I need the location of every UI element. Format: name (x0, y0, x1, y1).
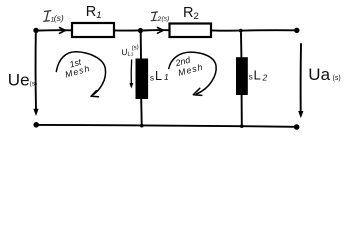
voltage arrow Ua (300, 44, 302, 112)
svg-text:2: 2 (262, 72, 268, 82)
mesh 1 arc (56, 52, 105, 96)
label 1st Mesh (64, 57, 92, 80)
label I2(s) (151, 12, 169, 23)
junction dot sL2 bottom (240, 124, 244, 128)
wire sL1 top stub (140, 33, 142, 59)
arrowhead current I1 (60, 28, 66, 34)
wire node to R1 (39, 29, 71, 31)
wire R1 to node A (114, 29, 138, 31)
svg-text:L: L (155, 69, 162, 83)
svg-text:(s): (s) (131, 45, 139, 52)
node B junction sL2 top (239, 29, 243, 33)
svg-text:(s): (s) (161, 16, 169, 23)
node bottom-left (33, 122, 39, 128)
wire sL1 bottom stub (140, 99, 143, 125)
label UL1(s) handwritten (120, 44, 140, 58)
arrowhead current I2 (158, 28, 164, 34)
inductor sL1 (136, 59, 149, 100)
resistor R2 (170, 24, 212, 38)
node A junction sL1 top (138, 28, 143, 33)
node top-right (294, 28, 299, 33)
wire sL2 top stub (240, 33, 242, 57)
svg-text:(s): (s) (54, 13, 64, 23)
voltage arrow UL1 (130, 60, 132, 84)
label 2nd Mesh (173, 54, 204, 78)
label I1(s) (44, 11, 64, 24)
svg-text:1: 1 (164, 72, 169, 82)
node top-left (33, 28, 38, 33)
svg-text:s: s (150, 73, 154, 82)
mesh 2 arrowhead (193, 88, 202, 95)
junction dot sL1 bottom (140, 124, 144, 128)
wire node A to R2 (143, 29, 169, 31)
mesh 2 arc (169, 52, 216, 94)
node bottom-right (294, 124, 300, 130)
wire R2 to node B (211, 29, 239, 31)
mesh 1 arrowhead (91, 91, 99, 97)
wire node B to top-right node (243, 29, 294, 31)
voltage arrow Ue (35, 34, 37, 110)
bottom rail wire (39, 125, 294, 127)
resistor R1 (72, 23, 114, 37)
svg-text:L: L (254, 68, 261, 83)
inductor sL2 (236, 57, 248, 95)
wire sL2 bottom stub (241, 95, 243, 125)
svg-text:s: s (249, 73, 253, 82)
